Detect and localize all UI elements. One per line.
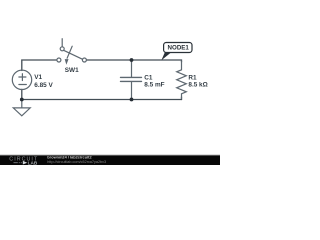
svg-text:SW1: SW1 bbox=[65, 67, 79, 74]
bottom wire ground rail bbox=[22, 99, 182, 101]
svg-text:brownm24 / lab2circuit2: brownm24 / lab2circuit2 bbox=[47, 154, 92, 159]
wire SW1 right to R1 top bbox=[86, 60, 181, 62]
resistor R1 bbox=[177, 61, 187, 99]
CircuitLab logo arrow and LAB bbox=[14, 160, 38, 165]
svg-text:8.5 kΩ: 8.5 kΩ bbox=[188, 82, 207, 89]
node flag NODE1 pointer bbox=[161, 53, 171, 61]
wire V1 top to SW1 left bbox=[22, 60, 57, 71]
svg-text:LAB: LAB bbox=[28, 160, 38, 165]
node flag NODE1 box bbox=[164, 43, 192, 53]
wire C1 top stub bbox=[131, 60, 133, 62]
capacitor C1 bbox=[121, 61, 142, 99]
wire C1 bottom stub bbox=[131, 98, 133, 100]
svg-text:C1: C1 bbox=[144, 74, 153, 81]
svg-text:8.5 mF: 8.5 mF bbox=[144, 82, 164, 89]
junction dot C1 bottom bbox=[130, 98, 134, 102]
voltage source V1 bbox=[12, 70, 31, 89]
wire R1 bottom stub bbox=[181, 97, 183, 100]
junction dot C1 top bbox=[130, 58, 134, 62]
svg-text:R1: R1 bbox=[188, 74, 197, 81]
bottom banner bbox=[0, 156, 220, 165]
svg-text:V1: V1 bbox=[34, 74, 42, 81]
svg-text:http://circuitlab.com/c52rxa7y: http://circuitlab.com/c52rxa7ya2bv3 bbox=[47, 160, 106, 164]
wire V1 bottom to ground node bbox=[21, 89, 23, 99]
svg-text:6.85 V: 6.85 V bbox=[34, 82, 53, 89]
junction dot ground node bbox=[20, 98, 24, 102]
switch SW1 bbox=[57, 39, 87, 64]
ground bbox=[13, 100, 30, 116]
svg-text:NODE1: NODE1 bbox=[168, 45, 190, 52]
